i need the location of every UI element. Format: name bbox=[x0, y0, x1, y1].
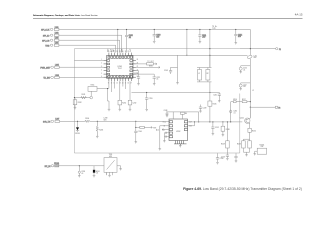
svg-text:2: 2 bbox=[101, 63, 102, 65]
ground bbox=[218, 101, 221, 103]
svg-text:P1: P1 bbox=[279, 49, 281, 51]
svg-text:R2: R2 bbox=[207, 73, 209, 75]
svg-text:5: 5 bbox=[101, 73, 102, 75]
svg-text:R250: R250 bbox=[252, 131, 256, 133]
net label TX_B+ bbox=[212, 26, 217, 30]
resistor R246 bbox=[181, 112, 187, 115]
connector J1-2 bbox=[43, 34, 53, 37]
node feed-busB bbox=[209, 55, 210, 56]
wire U1 out B with net arrow bbox=[136, 65, 160, 68]
svg-text:22: 22 bbox=[137, 66, 139, 68]
wire 9V3 row bbox=[60, 120, 169, 122]
svg-text:R256: R256 bbox=[233, 99, 237, 101]
svg-text:L211: L211 bbox=[254, 55, 258, 57]
capacitor C252 bbox=[211, 121, 219, 133]
wire vertical bus B bbox=[209, 29, 211, 67]
ground bbox=[245, 155, 248, 157]
svg-text:R251: R251 bbox=[91, 85, 95, 87]
svg-text:C260: C260 bbox=[233, 111, 237, 113]
node diode tap bbox=[77, 121, 78, 122]
wire row6 to U1 bbox=[59, 76, 103, 78]
capacitor C247 bbox=[164, 136, 169, 138]
svg-text:31: 31 bbox=[125, 51, 127, 53]
wire U202 out to Q base bbox=[188, 121, 243, 123]
svg-text:C255: C255 bbox=[243, 68, 247, 70]
capacitor C241 bbox=[213, 92, 221, 100]
capacitor C248 bbox=[164, 110, 169, 118]
svg-text:RF_IN: RF_IN bbox=[45, 166, 51, 168]
ground bbox=[153, 41, 156, 43]
svg-text:R243: R243 bbox=[99, 130, 103, 132]
ground bbox=[253, 154, 256, 156]
svg-text:.01: .01 bbox=[81, 173, 83, 175]
svg-text:ALC: ALC bbox=[156, 128, 160, 131]
node out-b bbox=[209, 121, 210, 122]
header text bbox=[33, 14, 99, 17]
ground bbox=[235, 43, 238, 45]
wire U202 out2 bbox=[188, 122, 195, 126]
svg-text:VCC1: VCC1 bbox=[162, 122, 166, 124]
svg-text:OUT: OUT bbox=[130, 49, 132, 52]
page number bbox=[295, 13, 303, 17]
svg-text:C258: C258 bbox=[81, 171, 85, 173]
resistor R251 bbox=[88, 85, 109, 97]
svg-text:R242: R242 bbox=[78, 102, 82, 104]
capacitor C260 feedthrough bbox=[230, 109, 238, 114]
svg-text:C249: C249 bbox=[203, 107, 207, 109]
svg-text:23: 23 bbox=[137, 63, 139, 65]
inductor L205 bbox=[55, 65, 60, 69]
node out-c bbox=[222, 121, 223, 122]
svg-text:.01: .01 bbox=[243, 69, 245, 71]
header rule bbox=[33, 17, 303, 20]
diode CR201 bbox=[75, 121, 80, 135]
node busA bottom bbox=[186, 55, 187, 56]
svg-text:R253: R253 bbox=[237, 143, 241, 145]
svg-text:P2: P2 bbox=[278, 107, 280, 109]
svg-text:7.5V: 7.5V bbox=[212, 28, 216, 30]
svg-text:.01: .01 bbox=[129, 37, 131, 39]
svg-text:84C: 84C bbox=[254, 57, 258, 59]
ground bbox=[212, 134, 215, 136]
capacitor C243 bbox=[164, 67, 178, 74]
capacitor C214 bbox=[234, 29, 242, 43]
connector J1-4 bbox=[45, 44, 53, 47]
svg-text:R252: R252 bbox=[122, 103, 126, 105]
wire rail drop to U1 pin bbox=[117, 29, 119, 52]
wire mid bus bbox=[132, 91, 220, 93]
svg-text:17: 17 bbox=[130, 82, 132, 84]
connector J1-1 bbox=[41, 28, 53, 31]
svg-text:TX IC: TX IC bbox=[118, 68, 123, 70]
svg-text:C232: C232 bbox=[133, 103, 137, 105]
resistor R248 bbox=[221, 122, 230, 135]
pin labels U202 left bbox=[162, 122, 192, 132]
inductor L211 coil bbox=[247, 55, 257, 59]
resistor R241 bbox=[81, 94, 86, 99]
svg-text:Q201: Q201 bbox=[240, 117, 244, 119]
svg-text:TRB: TRB bbox=[45, 45, 50, 47]
capacitor C259 bbox=[145, 92, 153, 109]
svg-text:L205: L205 bbox=[55, 65, 59, 67]
svg-text:L207: L207 bbox=[55, 119, 59, 121]
svg-text:32: 32 bbox=[128, 51, 130, 53]
resistor R256 R257 bias chain bbox=[230, 99, 251, 122]
svg-text:L206: L206 bbox=[55, 75, 59, 77]
capacitor C257 bbox=[234, 153, 237, 161]
svg-text:4: 4 bbox=[101, 69, 102, 71]
wire 9R3 rail top bbox=[59, 29, 250, 55]
inductor L204 bbox=[54, 43, 59, 47]
wire PA out line bbox=[250, 106, 275, 108]
op-amp U201 synthesizer IC (QFP) bbox=[104, 53, 136, 82]
capacitor C222 bbox=[136, 74, 160, 84]
ground bbox=[222, 135, 225, 137]
svg-text:Figure 4-69. Low Band (29.7-42: Figure 4-69. Low Band (29.7-42/35-50 MHz… bbox=[183, 187, 302, 191]
ground bbox=[108, 89, 111, 111]
net arrow ALC bbox=[156, 128, 169, 131]
svg-text:U202: U202 bbox=[176, 131, 180, 133]
inductor L209 with net arrow bbox=[135, 126, 156, 129]
svg-text:R245: R245 bbox=[213, 104, 217, 106]
resistor R242 bbox=[73, 98, 81, 108]
inductor L206 bbox=[55, 75, 60, 79]
capacitor C244 bbox=[134, 121, 142, 142]
ground bbox=[216, 162, 219, 164]
wire RF row bbox=[59, 165, 104, 167]
capacitor C210 bbox=[153, 29, 161, 42]
inductor L210 / resistor R210 parallel pair bbox=[197, 55, 212, 92]
ground bbox=[159, 149, 162, 151]
svg-text:.01: .01 bbox=[96, 173, 98, 175]
capacitor C221 bbox=[134, 71, 140, 84]
svg-text:R248: R248 bbox=[226, 129, 230, 131]
pin labels U201 top bbox=[108, 48, 133, 52]
capacitor C255 / inductor L212 series pair bbox=[239, 66, 254, 92]
svg-text:L201: L201 bbox=[55, 27, 59, 29]
wire U1 pin1 drop bbox=[108, 81, 110, 88]
svg-text:21: 21 bbox=[137, 69, 139, 71]
svg-text:100: 100 bbox=[156, 36, 159, 38]
svg-text:C248: C248 bbox=[164, 110, 168, 112]
node midbus-busB bbox=[209, 92, 210, 93]
transistor Q201 bbox=[240, 107, 251, 128]
svg-text:16: 16 bbox=[128, 82, 130, 84]
svg-text:RT201: RT201 bbox=[260, 144, 265, 146]
node rail-U1 bbox=[117, 29, 118, 30]
svg-text:L203: L203 bbox=[55, 38, 59, 40]
svg-text:E201: E201 bbox=[96, 171, 100, 173]
capacitor C246 bbox=[164, 132, 169, 141]
svg-text:120: 120 bbox=[243, 86, 246, 88]
ground bbox=[119, 109, 132, 111]
svg-text:C252: C252 bbox=[215, 127, 219, 129]
filter FL201 input block bbox=[54, 163, 59, 167]
svg-text:CR201: CR201 bbox=[75, 133, 80, 135]
pin numbers U201 bbox=[101, 51, 138, 84]
wire row3 to U1 bbox=[59, 40, 120, 52]
connector J2-1 9V3 bbox=[43, 120, 54, 123]
svg-text:9V3_TX: 9V3_TX bbox=[43, 121, 51, 123]
wire vertical bus A bbox=[186, 29, 188, 55]
inductor L208 label bbox=[104, 118, 108, 122]
connector J1-3 bbox=[42, 39, 53, 42]
svg-text:FL201: FL201 bbox=[54, 163, 59, 165]
resistor R252 bbox=[118, 100, 126, 109]
svg-text:SPI_CS: SPI_CS bbox=[42, 40, 50, 42]
ground bbox=[199, 111, 202, 113]
capacitor C249 bbox=[199, 105, 207, 112]
svg-text:L212: L212 bbox=[243, 84, 247, 86]
svg-text:470: 470 bbox=[238, 36, 241, 38]
wire U1 feed line bbox=[127, 54, 248, 56]
capacitor C232 bbox=[128, 100, 136, 109]
driver IC U202 bbox=[169, 119, 188, 146]
svg-text:SPI_CLK: SPI_CLK bbox=[41, 30, 50, 32]
wire T201 out bbox=[117, 166, 121, 169]
wire U202 left in bbox=[160, 126, 169, 149]
node busA top bbox=[186, 29, 187, 30]
svg-text:L2: L2 bbox=[198, 73, 200, 75]
wire U1 out A with net arrow bbox=[136, 61, 157, 65]
svg-text:R241: R241 bbox=[81, 94, 85, 96]
node busB mid bbox=[209, 48, 210, 49]
wire output chain bbox=[249, 59, 251, 118]
resistor R250 emitter bbox=[248, 128, 256, 139]
svg-text:4A-15: 4A-15 bbox=[295, 13, 303, 17]
wire row2 to U1 bbox=[59, 35, 122, 52]
ground bbox=[74, 108, 77, 110]
node ANT line / chain crossing bbox=[250, 48, 251, 49]
capacitor C253 bbox=[221, 155, 229, 158]
connector J1-6 bbox=[43, 76, 53, 79]
svg-text:L2: L2 bbox=[252, 90, 254, 92]
svg-text:10K: 10K bbox=[260, 146, 264, 148]
node R tap bbox=[97, 121, 98, 122]
bead E201 bbox=[93, 166, 100, 178]
svg-text:C256: C256 bbox=[220, 158, 224, 160]
svg-text:.01: .01 bbox=[233, 112, 235, 114]
svg-text:9V3: 9V3 bbox=[153, 127, 156, 129]
ground bbox=[179, 146, 182, 148]
ground bbox=[199, 42, 202, 44]
svg-text:L204: L204 bbox=[55, 43, 59, 45]
svg-text:Schematic Diagrams, Overlays,: Schematic Diagrams, Overlays, and Parts … bbox=[33, 14, 99, 17]
capacitor C211 bbox=[198, 29, 206, 42]
svg-text:1: 1 bbox=[106, 174, 107, 176]
transformer T201 module bbox=[104, 154, 117, 176]
ground bbox=[108, 175, 111, 177]
resistor R244 bbox=[85, 118, 90, 123]
ground bbox=[235, 161, 238, 163]
svg-text:R244: R244 bbox=[85, 118, 89, 120]
connector J5 RF in bbox=[45, 165, 54, 168]
svg-text:28: 28 bbox=[116, 51, 118, 53]
svg-text:24: 24 bbox=[137, 59, 139, 61]
wire row4 to U1 bbox=[59, 45, 116, 52]
inductor L207 bbox=[55, 119, 60, 123]
connector J4 PA out bbox=[275, 106, 280, 109]
svg-text:C244: C244 bbox=[138, 131, 142, 133]
node busB top bbox=[209, 29, 210, 30]
inductor L202 bbox=[54, 33, 59, 37]
resistor R249 column bbox=[221, 121, 229, 155]
wire row5 to U1 bbox=[59, 61, 103, 68]
svg-text:C243: C243 bbox=[164, 70, 168, 72]
svg-text:820: 820 bbox=[104, 119, 107, 121]
ground bbox=[153, 84, 156, 86]
ground bbox=[176, 55, 179, 84]
connector J1-5 bbox=[40, 66, 53, 69]
svg-text:L202: L202 bbox=[55, 33, 59, 35]
svg-text:1: 1 bbox=[101, 59, 102, 61]
svg-text:T201: T201 bbox=[109, 154, 113, 156]
svg-text:TX_INJ: TX_INJ bbox=[43, 78, 50, 80]
svg-text:12: 12 bbox=[116, 82, 118, 84]
resistor R245 bbox=[208, 92, 217, 121]
test point TP201 bbox=[90, 96, 93, 99]
capacitor C258 bbox=[78, 165, 85, 175]
svg-text:29: 29 bbox=[119, 51, 121, 53]
ground bbox=[96, 136, 99, 138]
wire under-U1 net bbox=[74, 97, 90, 99]
connector J3 ANT bbox=[276, 48, 281, 51]
svg-text:TX_OUT: TX_OUT bbox=[147, 61, 153, 63]
svg-text:.047: .047 bbox=[202, 37, 205, 39]
wire U202 top feeds bbox=[166, 112, 199, 122]
svg-text:R6: R6 bbox=[185, 113, 187, 115]
capacitor C205 bbox=[125, 29, 133, 53]
capacitor C256 bbox=[216, 153, 224, 162]
svg-text:R249: R249 bbox=[221, 144, 225, 146]
node C-tap bbox=[135, 121, 136, 122]
shield box TX enclosure bbox=[74, 49, 239, 153]
ground bbox=[78, 176, 81, 178]
ground bbox=[137, 84, 140, 86]
resistor R243 bbox=[96, 121, 103, 136]
node out-a bbox=[194, 121, 195, 122]
ground bbox=[135, 142, 138, 144]
wire U1 pin drops bbox=[112, 81, 130, 100]
node shield-left bbox=[74, 97, 75, 98]
thermistor RT201 module bbox=[255, 144, 267, 154]
ground bbox=[163, 141, 166, 143]
ground bbox=[226, 158, 229, 160]
svg-text:R257: R257 bbox=[242, 99, 246, 101]
svg-text:C241: C241 bbox=[213, 95, 217, 97]
caption bbox=[183, 187, 302, 191]
ground bbox=[145, 109, 148, 111]
wire ANT feed line bbox=[240, 48, 276, 50]
svg-text:SPI_IO: SPI_IO bbox=[43, 35, 50, 37]
svg-text:C222: C222 bbox=[156, 77, 160, 79]
ground bbox=[119, 169, 122, 171]
inductor L203 bbox=[54, 38, 59, 42]
svg-text:.01: .01 bbox=[156, 79, 158, 81]
resistor R253 / resistor R254 parallel bbox=[237, 139, 251, 155]
svg-text:C259: C259 bbox=[149, 98, 153, 100]
inductor L201 bbox=[54, 27, 59, 31]
svg-text:PWR_SET: PWR_SET bbox=[40, 67, 50, 69]
node collector line bbox=[250, 107, 251, 108]
